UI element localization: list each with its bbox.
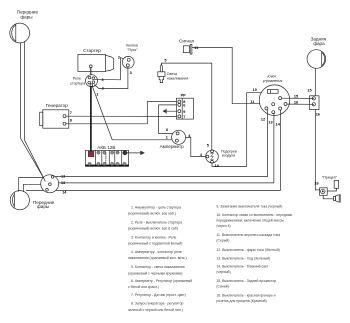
svg-text:2: 2 (118, 55, 120, 59)
svg-text:(через 4): (через 4) (216, 224, 230, 228)
svg-text:16: 16 (316, 112, 320, 116)
svg-text:стартера: стартера (70, 82, 85, 86)
svg-text:управления: управления (262, 79, 283, 83)
starter (78, 54, 114, 71)
label: wire 6 number (166, 128, 168, 132)
wire 5: glow plug to air heater (161, 63, 211, 150)
svg-text:6: 6 (166, 128, 168, 132)
wire 4: ammeter to air heater (186, 138, 206, 157)
label: Кнопка "Пуск" (126, 44, 138, 53)
wire 14: junction to key (56, 110, 281, 190)
wire 13: junction to key (59, 114, 274, 183)
wire 15: rear lamp down to socket (314, 68, 316, 95)
wire 11: horn to key (192, 47, 260, 103)
svg-text:11: 11 (194, 46, 198, 50)
svg-text:3: 3 (130, 71, 132, 75)
wire 3: button to relay (95, 58, 123, 80)
socket (розетка) (310, 96, 320, 110)
label: generator terminal numbers 7 8 (70, 111, 72, 123)
wire: bottom headlight to junction (lower) (26, 189, 43, 191)
svg-text:4: 4 (200, 153, 203, 157)
ammeter (172, 130, 186, 144)
svg-text:15: 15 (294, 95, 298, 99)
svg-text:(коричневый) включ. все каб.): (коричневый) включ. все каб.) (128, 212, 176, 216)
label: junction wire numbers 12 13 14 (61, 174, 67, 194)
label: Свеча накаливания (167, 72, 189, 80)
wire 12: junction to key (55, 110, 267, 177)
trailer connector (320, 188, 328, 196)
svg-text:8. Запуск генератора - регулят: 8. Запуск генератора - регулятор (131, 302, 184, 306)
svg-text:4. Амперметру - контактор реле: 4. Амперметру - контактор реле (131, 250, 182, 254)
wire 15: key to socket (282, 97, 314, 99)
wire 2: button to relay (95, 67, 128, 89)
label: РР and terminal numbers (181, 94, 187, 120)
label: Ключ управления (262, 75, 283, 84)
svg-text:16: 16 (294, 100, 298, 104)
svg-text:16: 16 (314, 182, 318, 186)
wire: connector to trailer lamp (327, 188, 336, 191)
svg-text:11. Выключатель верхнего каска: 11. Выключатель верхнего каскада тока (216, 233, 280, 237)
chassis ground arrow from battery (127, 151, 144, 155)
label: Стартер (83, 48, 101, 53)
label: wire 16 number below socket (316, 112, 320, 116)
svg-text:10: 10 (215, 164, 219, 168)
svg-text:фары: фары (20, 15, 32, 20)
svg-text:11: 11 (250, 100, 254, 104)
battery main cable (thick) (90, 87, 92, 151)
svg-text:(коричневый) включ. все 6 саб): (коричневый) включ. все 6 саб) (128, 226, 178, 230)
svg-text:(черный): (черный) (216, 270, 230, 274)
svg-text:5: 5 (164, 59, 166, 63)
svg-text:7. Регулятор - Датчик (прост.: 7. Регулятор - Датчик (прост. цвет) (131, 293, 186, 297)
svg-text:9: 9 (183, 110, 185, 114)
svg-text:Сигнал: Сигнал (179, 38, 195, 43)
svg-text:10: 10 (253, 88, 257, 92)
wire 1: relay to ammeter (93, 87, 173, 140)
battery АКБ 12В (85, 150, 128, 166)
svg-text:3: 3 (102, 78, 104, 82)
label: Реле стартера (70, 76, 85, 85)
generator (40, 110, 69, 128)
label: АКБ 12В (97, 145, 115, 150)
svg-text:8: 8 (70, 118, 72, 122)
glow plug (Свеча накаливания) (158, 64, 165, 82)
svg-text:6: 6 (183, 104, 185, 108)
svg-text:АКБ 12В: АКБ 12В (97, 145, 115, 150)
svg-text:розетка для прицепа (Красный): розетка для прицепа (Красный) (216, 299, 266, 303)
svg-text:1: 1 (96, 92, 98, 96)
label: wire 4 numbers (188, 134, 203, 157)
regulator PP box (176, 98, 193, 119)
svg-text:Амперметр: Амперметр (160, 144, 184, 149)
trailer lamp (334, 180, 338, 188)
label: wire 3 numbers (102, 55, 121, 82)
svg-text:14. Выключатель - ближний свет: 14. Выключатель - ближний свет (216, 265, 268, 269)
svg-text:"Пуск": "Пуск" (127, 48, 138, 52)
svg-text:зеленый с черной или белой лин: зеленый с черной или белой лин.) (128, 308, 183, 312)
svg-text:16. Выключатель - красная фона: 16. Выключатель - красная фонарь и (216, 294, 275, 298)
svg-text:7: 7 (70, 111, 72, 115)
svg-text:Реле: Реле (73, 76, 81, 80)
svg-text:фара: фара (313, 41, 325, 46)
junction block (headlight connector) (41, 175, 59, 193)
wire: top headlight feed B (25, 41, 46, 181)
legend right column (216, 204, 293, 303)
label: Подогрев воздуха (221, 149, 237, 157)
label: wire 16 number near trailer (314, 182, 318, 186)
svg-text:Ключ: Ключ (268, 75, 277, 79)
label: wire 10 numbers (215, 88, 257, 168)
wire 7: generator to regulator (66, 115, 176, 117)
label: key bottom wire numbers 12 13 14 (261, 117, 281, 126)
svg-text:"Прицеп": "Прицеп" (322, 176, 338, 180)
svg-text:1. Аккумулятор - цепь стартера: 1. Аккумулятор - цепь стартера (131, 205, 181, 209)
legend left column (128, 205, 192, 311)
svg-text:7: 7 (183, 115, 185, 119)
svg-text:13: 13 (268, 121, 272, 125)
svg-text:10. Контактор связи со включен: 10. Контактор связи со включением - пере… (216, 213, 293, 217)
svg-text:14: 14 (276, 122, 281, 126)
svg-text:15. Выключатель - Задней проже: 15. Выключатель - Задней прожектор (216, 279, 276, 283)
air heater (Подогрев воздуха) (206, 150, 219, 163)
label: wire 1 numbers (96, 92, 168, 139)
svg-text:(оранжевый с черными кружками): (оранжевый с черными кружками) (128, 271, 182, 275)
label: Прицеп (322, 176, 338, 180)
wire: connector to trailer plug (323, 195, 333, 199)
front headlight (bottom left) (10, 191, 29, 210)
wire 16: socket down to trailer connector (315, 110, 319, 190)
svg-text:(коричневый с подсветкой Белый: (коричневый с подсветкой Белый) (128, 242, 182, 246)
svg-text:РР: РР (181, 94, 187, 98)
rear lamp (Задняя фара) (307, 50, 326, 69)
starter relay (86, 75, 98, 87)
wire 16: key to socket (287, 103, 314, 105)
svg-text:9. Зажигание выключателя тока: 9. Зажигание выключателя тока (черный) (216, 204, 282, 208)
svg-text:2. Реле - выключатель стартера: 2. Реле - выключатель стартера (131, 220, 182, 224)
label: Амперметр (160, 144, 184, 149)
wire: starter to relay (90, 68, 92, 75)
wire: top headlight feed A (20, 43, 43, 178)
svg-text:(Синий): (Синий) (216, 285, 228, 289)
svg-text:5. Контактор - свеча накаливан: 5. Контактор - свеча накаливания (131, 265, 185, 269)
svg-text:14: 14 (62, 191, 67, 195)
svg-text:накаливания: накаливания (167, 76, 189, 80)
svg-text:3. Контактор и кнопка - Реле: 3. Контактор и кнопка - Реле (131, 235, 176, 239)
trailer plug (334, 195, 341, 203)
svg-text:Стартер: Стартер (83, 48, 101, 53)
svg-text:с белой или красн.): с белой или красн.) (128, 285, 159, 289)
start button (Кнопка Пуск) (122, 56, 134, 68)
svg-text:2: 2 (102, 87, 104, 91)
ignition key switch (Ключ управления) (259, 85, 290, 116)
svg-text:12. Выключатель - фары тока (Ж: 12. Выключатель - фары тока (Желтый) (216, 248, 280, 252)
svg-text:1: 1 (166, 135, 168, 139)
svg-text:12: 12 (261, 117, 265, 121)
wire: bottom headlight to junction (middle) (23, 184, 40, 191)
wire 9 + chassis ground at regulator (163, 109, 176, 114)
label: Передние фары (top) (17, 9, 39, 19)
label: Передние фары (bottom) (33, 200, 55, 209)
label: wire 11 numbers (194, 46, 254, 104)
wire 8: generator to regulator (66, 102, 176, 124)
svg-text:накаливания (оранжевый жел. ви: накаливания (оранжевый жел. витк.) (128, 256, 187, 260)
svg-text:6. Амперметр - Регулятор (оран: 6. Амперметр - Регулятор (оранжевый (131, 279, 192, 283)
label: wire 5 numbers (164, 59, 209, 148)
svg-text:Генератор: Генератор (46, 103, 68, 108)
label: Сигнал (179, 38, 195, 43)
svg-text:Кнопка: Кнопка (126, 44, 138, 48)
wire: bottom headlight to junction (upper) (19, 178, 44, 192)
wire 10: air heater to key (212, 93, 261, 167)
label: wire 15/16 numbers near key (294, 95, 298, 105)
label: Задняя фара (311, 36, 327, 45)
svg-text:передвижением; включение общей: передвижением; включение общей массы (216, 219, 284, 223)
svg-text:15: 15 (307, 88, 311, 92)
label: wire 15 number above socket (307, 88, 311, 92)
svg-text:5: 5 (207, 143, 209, 147)
svg-text:фары: фары (37, 204, 49, 209)
svg-text:воздуха: воздуха (222, 154, 235, 158)
label: wire 2 numbers (102, 71, 132, 91)
label: Генератор (46, 103, 68, 108)
svg-text:(Серый): (Серый) (216, 239, 229, 243)
wire 6: regulator to ammeter (159, 105, 177, 134)
horn (Сигнал) (183, 44, 192, 54)
svg-text:13. Выключатель - Ход (Зеленый: 13. Выключатель - Ход (Зеленый) (216, 257, 270, 261)
front headlight (top left) (10, 23, 30, 43)
